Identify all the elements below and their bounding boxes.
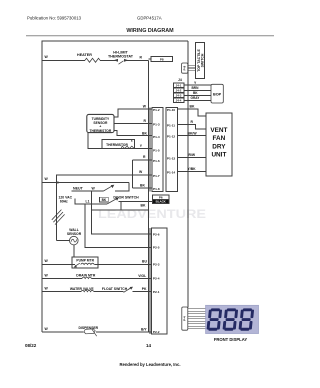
svg-text:THERMOSTAT: THERMOSTAT [108, 54, 134, 58]
svg-text:P2-5: P2-5 [153, 246, 160, 250]
dispenser symbol [84, 329, 97, 337]
svg-text:BK: BK [140, 183, 145, 187]
connector P1 column2 housing [166, 107, 177, 191]
wire NEUT [72, 190, 104, 192]
svg-text:P2-3: P2-3 [153, 263, 160, 267]
connector P-8 [182, 63, 188, 73]
svg-text:P8: P8 [160, 57, 164, 61]
wire neutral drop to P2-6 [92, 191, 152, 234]
svg-text:SWITCH: SWITCH [201, 53, 205, 67]
svg-text:J4-3: J4-3 [176, 94, 182, 98]
power cord hatch [52, 210, 65, 225]
drain motor winding [82, 277, 91, 278]
wire corner to neut switch [115, 183, 129, 192]
svg-text:WATER VALVE: WATER VALVE [70, 287, 94, 291]
svg-text:Rendered by Leadventure, Inc.: Rendered by Leadventure, Inc. [120, 362, 181, 367]
labels P2 pins [153, 232, 160, 334]
ribbon wires P-8 to top tactile switch [188, 66, 196, 71]
svg-text:PUMP MTR: PUMP MTR [76, 258, 94, 262]
svg-text:BK: BK [102, 198, 107, 202]
junction arrow W [55, 181, 58, 183]
svg-text:VIOL: VIOL [138, 274, 146, 278]
svg-text:P1-11: P1-11 [167, 123, 175, 127]
asterisk note mark [131, 140, 133, 142]
bus second line P1 [149, 107, 151, 191]
svg-text:BK: BK [190, 104, 195, 108]
connector P6 BLACK [152, 195, 169, 199]
float switch arrowhead [130, 287, 133, 290]
turbidity sensor box [87, 114, 114, 132]
svg-text:HEATER: HEATER [77, 53, 92, 57]
svg-text:60Hz: 60Hz [60, 199, 68, 203]
door switch arrowhead [115, 197, 119, 200]
bus vertical BK x=148.5 [147, 60, 149, 332]
ribbon wires P-4 to display [188, 309, 206, 329]
seven segment digits 888 [206, 308, 254, 330]
door switch blade [107, 198, 117, 204]
svg-text:P2-2: P2-2 [153, 330, 160, 334]
wire water valve line [42, 291, 152, 293]
svg-text:BRN: BRN [192, 86, 200, 90]
wire BU pump to P2-3 [98, 263, 152, 265]
wire Y to P1-5 [102, 148, 152, 150]
svg-text:DRAIN MTR: DRAIN MTR [76, 274, 96, 278]
svg-text:BK: BK [141, 204, 146, 208]
svg-text:BOP: BOP [213, 92, 222, 96]
labels P1 pins column1 [153, 108, 160, 191]
svg-text:Publication No: 5995730013: Publication No: 5995730013 [27, 16, 82, 21]
top tactile switch box [195, 43, 204, 79]
pump motor blade and winding [75, 263, 95, 266]
svg-text:FAN: FAN [213, 135, 226, 142]
wire W to P1-7 [57, 175, 152, 183]
labels P1 pins column2 [167, 108, 176, 174]
svg-text:P1-14: P1-14 [167, 170, 176, 174]
wire J4-3 BK [184, 94, 211, 96]
connector P-4 [182, 307, 188, 330]
label VENT FAN DRY UNIT [210, 127, 227, 159]
svg-text:BU: BU [142, 260, 147, 264]
svg-text:DOOR SWITCH: DOOR SWITCH [113, 195, 139, 199]
svg-text:P1-12: P1-12 [167, 135, 176, 139]
svg-text:P2-1: P2-1 [153, 290, 160, 294]
connector P8 inline [149, 58, 152, 60]
svg-text:J4-4: J4-4 [176, 99, 182, 103]
svg-text:P1-13: P1-13 [167, 156, 176, 160]
wire heater line [42, 59, 149, 61]
wire W from frame [42, 182, 129, 184]
svg-text:THERMISTOR: THERMISTOR [90, 129, 112, 133]
svg-text:P2-4: P2-4 [153, 277, 160, 281]
svg-text:GRAY: GRAY [191, 96, 201, 100]
wire drain line [42, 278, 152, 280]
bus second line P2 [149, 228, 151, 334]
pump motor box [72, 257, 98, 268]
connector J4 pin boxes [174, 83, 184, 88]
svg-text:J4: J4 [178, 78, 182, 82]
wire R to P1-3 [114, 123, 152, 125]
svg-text:P1-4: P1-4 [153, 135, 160, 139]
outer frame right edge / BK bus to P-4 [187, 41, 189, 307]
wire BK to bus [92, 209, 149, 211]
BK label box [100, 197, 109, 202]
wire R to P1-6 [132, 159, 152, 161]
svg-text:14: 14 [146, 343, 152, 348]
svg-text:P1-2: P1-2 [153, 108, 160, 112]
wire J4-4 GRAY [184, 100, 211, 102]
wire wall sensor to pump [73, 245, 75, 257]
wall sensor circle [70, 236, 79, 245]
wire R/W P1-13 to vent [178, 157, 206, 159]
wire L1 [75, 199, 107, 205]
thermistor element [121, 146, 134, 148]
float switch blade [124, 287, 132, 292]
title rule [26, 35, 274, 37]
curved and diagonal symbols [52, 58, 224, 336]
svg-text:DISPENSER: DISPENSER [78, 326, 98, 330]
wire dispenser line [42, 331, 152, 333]
svg-text:08/22: 08/22 [25, 343, 37, 348]
arrowheads [55, 59, 133, 290]
wire pump line W [42, 263, 98, 265]
water valve winding [81, 290, 94, 291]
svg-text:NEUT: NEUT [73, 186, 84, 190]
outer frame left+top [42, 41, 188, 332]
svg-text:SENSOR: SENSOR [67, 232, 82, 236]
svg-text:GDPP4517A: GDPP4517A [137, 16, 162, 21]
svg-text:P1-6: P1-6 [153, 159, 160, 163]
svg-text:FLOAT SWITCH: FLOAT SWITCH [102, 287, 128, 291]
pump blade arrowhead [74, 265, 77, 268]
wire J4-1 Y [184, 84, 211, 86]
wire to P2-5 [85, 204, 152, 247]
svg-text:Y/BK: Y/BK [188, 167, 197, 171]
wire BK P1-10 to vent [178, 109, 206, 116]
svg-text:P1-7: P1-7 [153, 174, 160, 178]
svg-text:P-8: P-8 [183, 65, 187, 70]
neut switch arrowhead [111, 185, 115, 188]
svg-text:P-4: P-4 [183, 316, 187, 321]
wire Y/BK P1-14 to vent [178, 171, 206, 173]
svg-text:WIRING DIAGRAM: WIRING DIAGRAM [126, 28, 174, 34]
wire BK/W P1-12 to vent [178, 135, 206, 137]
svg-text:THERMISTOR: THERMISTOR [106, 143, 128, 147]
svg-text:BK: BK [193, 91, 198, 95]
svg-text:P1-8: P1-8 [153, 187, 160, 191]
front display module [206, 305, 259, 333]
neut switch blade [104, 186, 113, 191]
svg-text:BK/W: BK/W [188, 131, 198, 135]
svg-text:FRONT DISPLAY: FRONT DISPLAY [214, 337, 248, 342]
svg-text:P2-6: P2-6 [153, 232, 160, 236]
svg-text:BLACK: BLACK [156, 200, 167, 204]
wire BK stub door to bus wire [120, 201, 122, 210]
wire v1 vertical bracket [131, 160, 133, 188]
wall sensor riser wire [57, 183, 70, 241]
svg-text:P1-5: P1-5 [153, 148, 160, 152]
connector P1 column1 housing [152, 107, 163, 191]
svg-text:P1-10: P1-10 [167, 108, 176, 112]
connector P2 housing [152, 228, 167, 334]
svg-text:UNIT: UNIT [211, 152, 226, 159]
hi-limit arrows [114, 59, 119, 62]
wire BK to P1-4 [114, 130, 152, 135]
wire J4-2 BRN [184, 89, 211, 91]
svg-text:J4-2: J4-2 [176, 89, 182, 93]
svg-text:LEADVENTURE: LEADVENTURE [98, 207, 206, 221]
wire BK door switch to P6 [119, 200, 153, 202]
wire W to P1-2 [114, 109, 152, 117]
svg-text:L1: L1 [86, 200, 90, 204]
svg-text:VENT: VENT [210, 127, 227, 134]
svg-text:P1-3: P1-3 [153, 123, 160, 127]
vent fan dry unit box [206, 113, 232, 176]
hi-limit thermostat symbol [119, 61, 124, 64]
svg-text:B/Y: B/Y [141, 328, 147, 332]
thermistor left wire [88, 133, 102, 149]
svg-text:PK: PK [142, 287, 147, 291]
svg-text:DRY: DRY [212, 143, 226, 150]
svg-text:BK: BK [142, 131, 147, 135]
wire BK to P1-8 [132, 187, 152, 189]
thermistor box [102, 140, 135, 149]
wire R P1-11 to vent [178, 124, 206, 128]
svg-text:J4-1: J4-1 [176, 83, 182, 87]
BOP box [211, 84, 223, 103]
svg-text:R/W: R/W [189, 153, 196, 157]
heater element [85, 58, 100, 62]
